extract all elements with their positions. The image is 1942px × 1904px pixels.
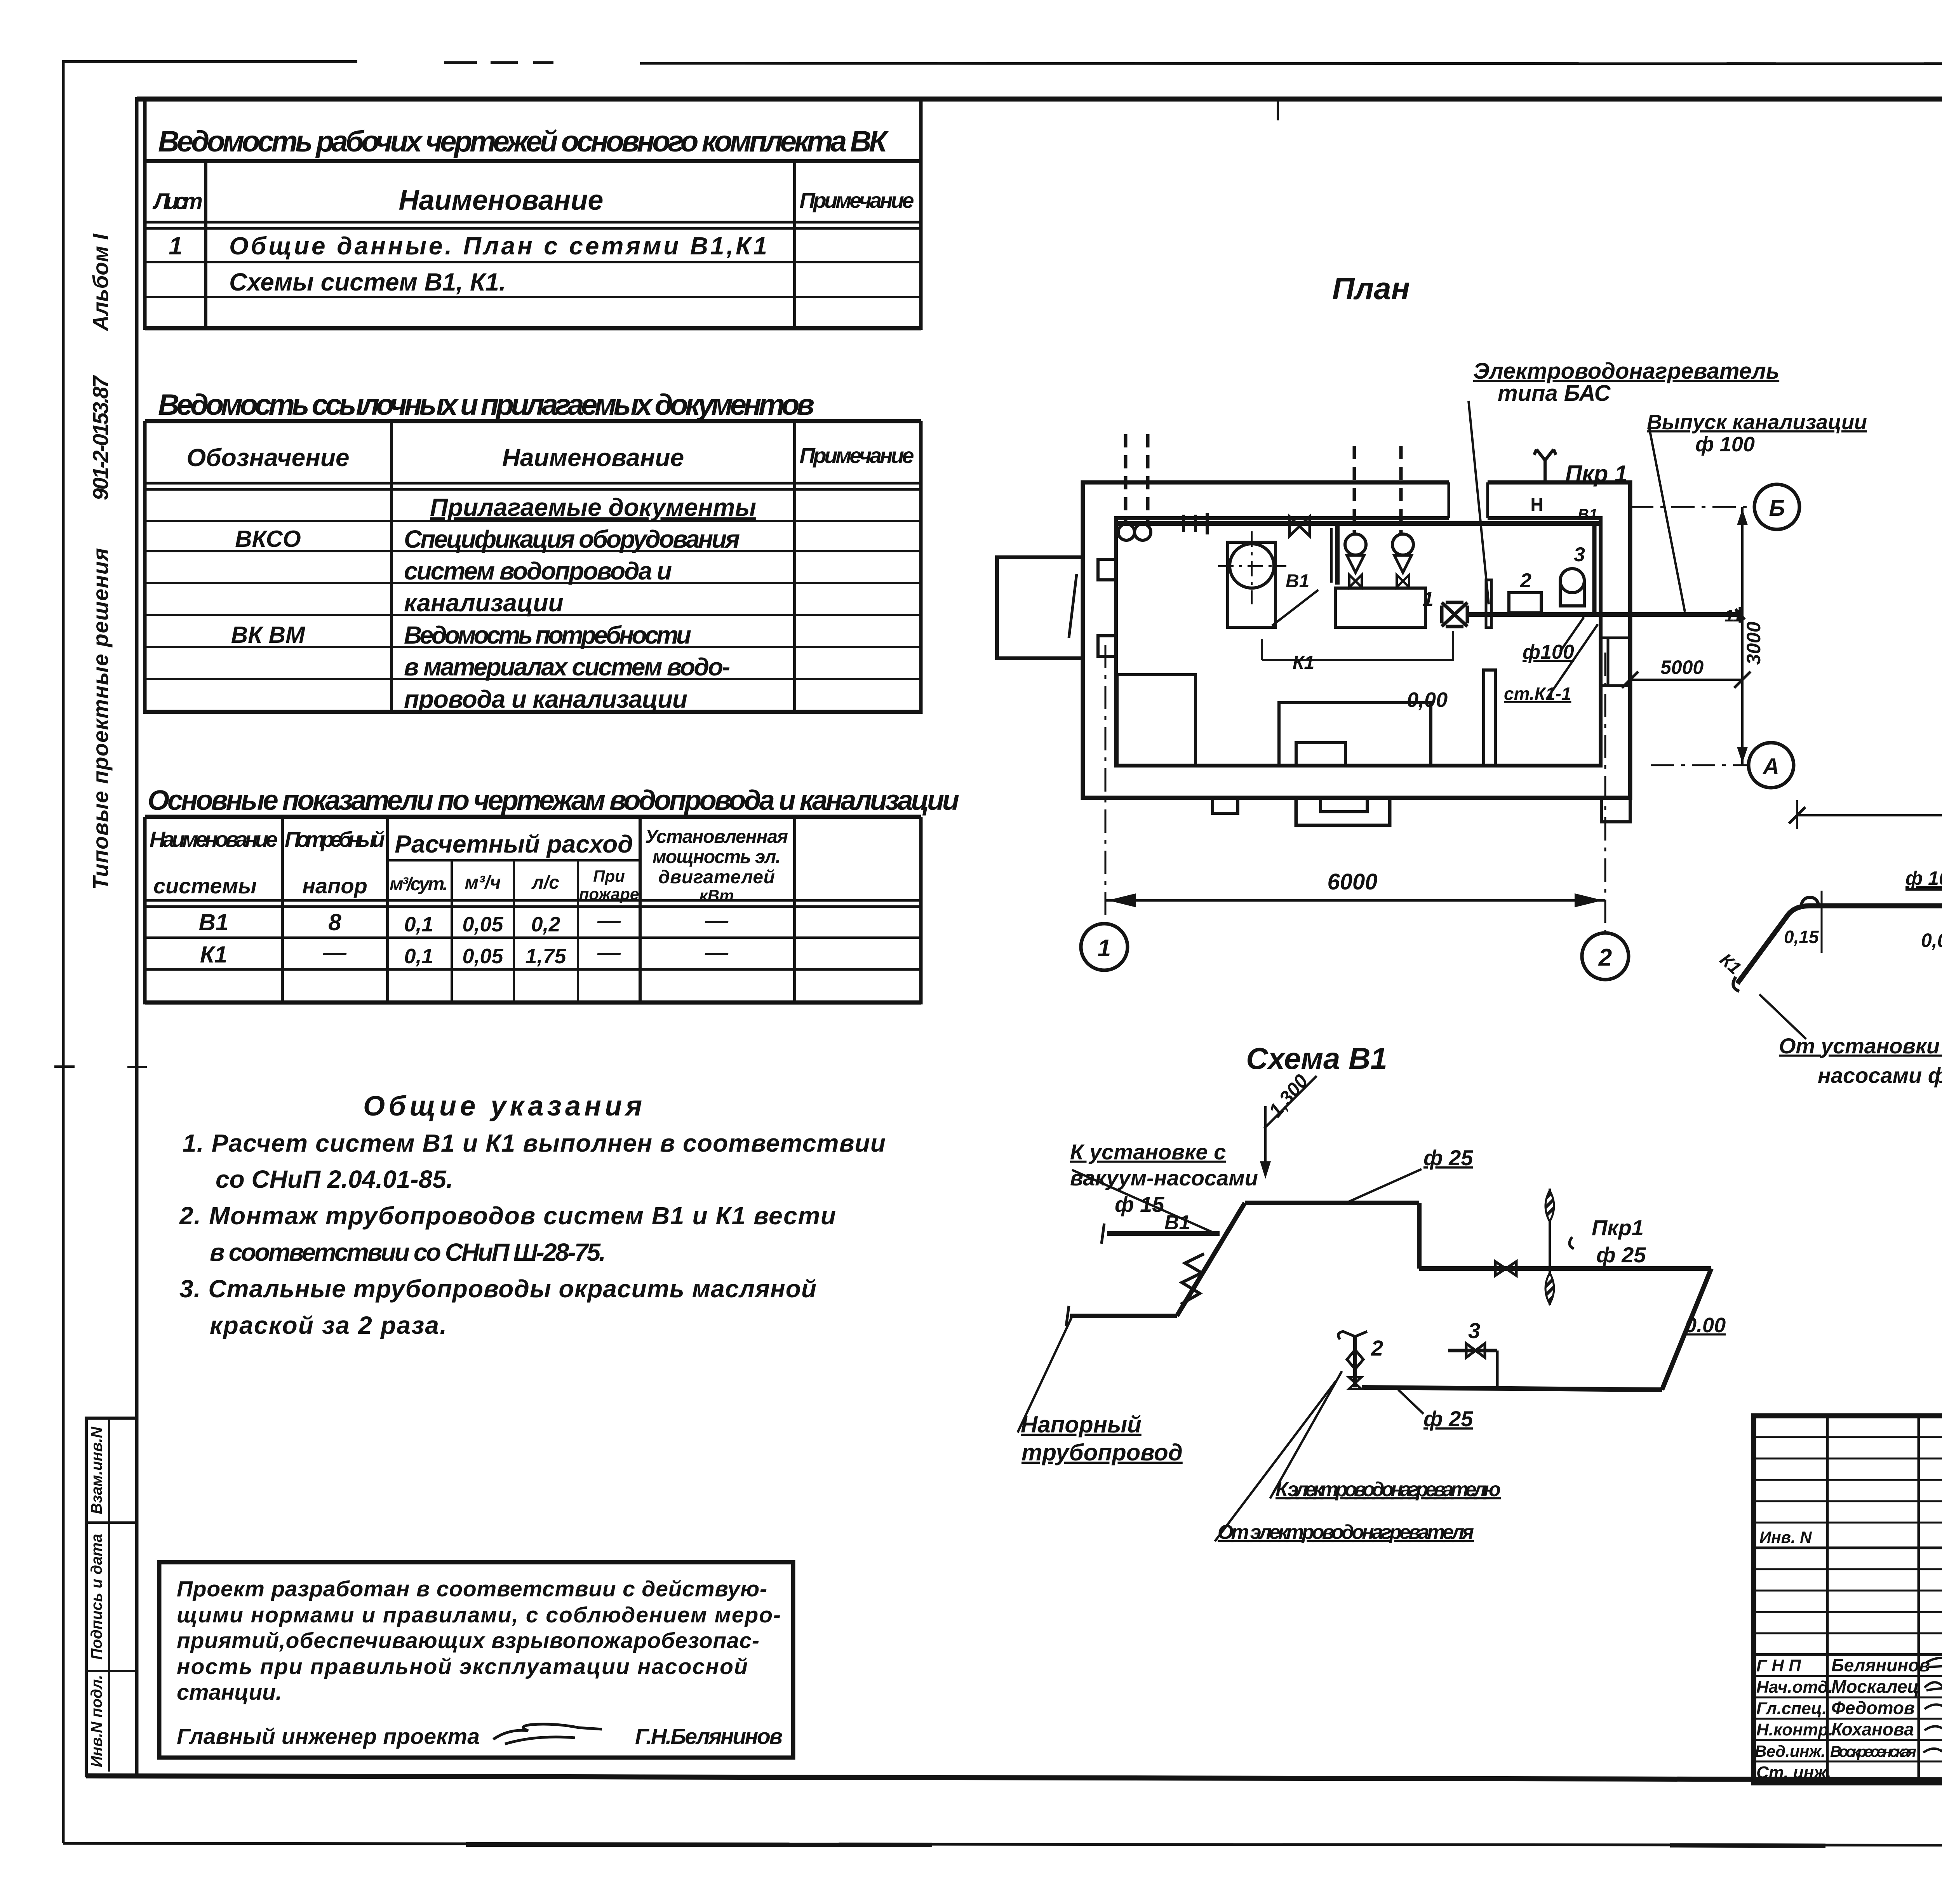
- svg-text:ф 100: ф 100: [1695, 433, 1755, 456]
- svg-text:вакуум-насосами: вакуум-насосами: [1070, 1166, 1258, 1190]
- svg-text:Гл.спец.: Гл.спец.: [1756, 1699, 1827, 1718]
- svg-text:В1: В1: [199, 909, 229, 935]
- svg-text:Ст. инж.: Ст. инж.: [1756, 1763, 1831, 1782]
- svg-text:ф 25: ф 25: [1596, 1243, 1646, 1267]
- svg-text:А: А: [1762, 754, 1779, 779]
- svg-text:типа БАС: типа БАС: [1498, 381, 1611, 406]
- svg-text:0,1: 0,1: [404, 913, 433, 936]
- svg-text:ность при правильной эксплу: ность при правильной эксплуатации насосн…: [177, 1654, 748, 1679]
- svg-text:Потребный: Потребный: [285, 827, 385, 851]
- svg-text:Наименование: Наименование: [399, 185, 604, 216]
- svg-text:5000: 5000: [1660, 656, 1704, 678]
- svg-text:ф 25: ф 25: [1423, 1145, 1473, 1170]
- svg-text:щими нормами и правилами, с: щими нормами и правилами, с соблюдением …: [177, 1603, 781, 1627]
- svg-text:8: 8: [328, 909, 341, 935]
- svg-text:провода и канализации: провода и канализации: [404, 685, 687, 713]
- svg-text:систем водопровода и: систем водопровода и: [404, 557, 672, 585]
- svg-text:ф 25: ф 25: [1423, 1406, 1473, 1431]
- svg-text:Схемы систем В1, К1.: Схемы систем В1, К1.: [229, 268, 506, 296]
- svg-text:Б: Б: [1769, 496, 1785, 521]
- svg-text:Напорный: Напорный: [1021, 1411, 1142, 1438]
- svg-text:Белянинов: Белянинов: [1831, 1655, 1930, 1675]
- svg-text:м³/сут.: м³/сут.: [390, 874, 448, 895]
- svg-text:Инв. N: Инв. N: [1759, 1528, 1812, 1546]
- svg-text:системы: системы: [153, 874, 257, 898]
- svg-text:1: 1: [1098, 935, 1111, 962]
- svg-text:Г.Н.Белянинов: Г.Н.Белянинов: [635, 1724, 783, 1749]
- svg-text:—: —: [705, 939, 729, 965]
- svg-text:3000: 3000: [1743, 621, 1765, 665]
- svg-text:К1: К1: [200, 942, 227, 968]
- svg-text:11: 11: [1724, 606, 1742, 625]
- svg-text:в материалах систем водо-: в материалах систем водо-: [404, 653, 730, 681]
- svg-text:0,00: 0,00: [1407, 688, 1448, 712]
- svg-text:1. Расчет систем В1 и К1: 1. Расчет систем В1 и К1 выполнен в соот…: [183, 1129, 886, 1157]
- svg-text:Наименование: Наименование: [150, 827, 278, 851]
- svg-text:Ведомость потребности: Ведомость потребности: [404, 621, 691, 649]
- svg-text:ф 100: ф 100: [1905, 867, 1942, 889]
- svg-text:в соответствии со СНиП Ш-28-: в соответствии со СНиП Ш-28-75.: [210, 1238, 606, 1266]
- svg-text:Инв.N подл.: Инв.N подл.: [88, 1675, 105, 1767]
- svg-text:—: —: [323, 939, 347, 965]
- svg-text:0,02: 0,02: [1921, 929, 1942, 951]
- svg-text:Примечание: Примечание: [800, 443, 914, 468]
- svg-text:Федотов: Федотов: [1831, 1698, 1915, 1718]
- svg-text:0,2: 0,2: [531, 913, 560, 936]
- svg-text:станции.: станции.: [177, 1680, 282, 1705]
- svg-text:—: —: [597, 939, 621, 965]
- svg-text:Общие данные. План с сетями: Общие данные. План с сетями В1,К1: [229, 232, 767, 260]
- svg-text:Н.контр.: Н.контр.: [1756, 1720, 1833, 1739]
- svg-text:2: 2: [1598, 944, 1612, 971]
- svg-text:0,05: 0,05: [462, 913, 503, 936]
- svg-text:0.00: 0.00: [1685, 1314, 1726, 1337]
- svg-text:Коханова: Коханова: [1831, 1719, 1914, 1739]
- svg-text:К электроводонагревателю: К электроводонагревателю: [1276, 1478, 1501, 1501]
- svg-text:Ведомость рабочих чертежей осн: Ведомость рабочих чертежей основного ком…: [158, 125, 889, 158]
- svg-text:2: 2: [1371, 1336, 1383, 1360]
- svg-text:Нач.отд.: Нач.отд.: [1756, 1678, 1833, 1697]
- svg-text:приятий,обеспечивающих взрыво: приятий,обеспечивающих взрывопожаробезоп…: [177, 1628, 759, 1653]
- svg-text:напор: напор: [302, 874, 367, 898]
- svg-text:Выпуск канализации: Выпуск канализации: [1647, 411, 1867, 434]
- svg-text:со СНиП 2.04.01-85.: со СНиП 2.04.01-85.: [216, 1165, 453, 1193]
- svg-text:К1: К1: [1293, 653, 1314, 673]
- svg-text:6000: 6000: [1327, 869, 1377, 895]
- svg-text:ф100: ф100: [1523, 641, 1574, 663]
- svg-text:Взам.инв.N: Взам.инв.N: [88, 1426, 105, 1514]
- svg-text:Лист: Лист: [152, 189, 203, 214]
- svg-text:0,05: 0,05: [462, 945, 503, 968]
- svg-text:Ведомость ссылочных и прилага: Ведомость ссылочных и прилагаемых докуме…: [158, 388, 814, 421]
- svg-text:пожаре: пожаре: [579, 885, 639, 903]
- svg-text:Электроводонагреватель: Электроводонагреватель: [1473, 359, 1779, 384]
- svg-text:3: 3: [1574, 543, 1585, 566]
- svg-text:Расчетный расход: Расчетный расход: [395, 830, 633, 858]
- svg-text:К установке с: К установке с: [1070, 1140, 1226, 1164]
- svg-text:3: 3: [1468, 1318, 1480, 1343]
- svg-text:Вед.инж.: Вед.инж.: [1755, 1742, 1825, 1760]
- svg-text:Примечание: Примечание: [800, 188, 914, 212]
- svg-text:План: План: [1332, 271, 1410, 306]
- svg-text:1: 1: [1422, 588, 1434, 611]
- svg-text:2. Монтаж трубопроводов сис: 2. Монтаж трубопроводов систем В1 и К1 в…: [179, 1202, 836, 1230]
- svg-text:ВК ВМ: ВК ВМ: [231, 622, 306, 648]
- svg-text:Прилагаемые документы: Прилагаемые документы: [430, 493, 756, 521]
- svg-text:2: 2: [1520, 569, 1531, 592]
- svg-text:двигателей: двигателей: [658, 867, 775, 888]
- svg-text:Проект разработан в соответс: Проект разработан в соответствии с дейст…: [177, 1577, 767, 1601]
- svg-text:краской за 2 раза.: краской за 2 раза.: [210, 1311, 447, 1339]
- svg-text:ст.К1-1: ст.К1-1: [1504, 684, 1571, 704]
- svg-text:Главный инженер проекта: Главный инженер проекта: [177, 1724, 480, 1749]
- svg-text:От установки с вакуум-: От установки с вакуум-: [1779, 1034, 1942, 1058]
- svg-text:Типовые проектные решения: Типовые проектные решения: [88, 548, 113, 890]
- svg-text:ф 15: ф 15: [1115, 1192, 1164, 1217]
- svg-text:канализации: канализации: [404, 589, 564, 617]
- svg-text:кВт: кВт: [700, 886, 734, 905]
- svg-text:Подпись и дата: Подпись и дата: [88, 1534, 105, 1660]
- svg-text:Установленная: Установленная: [645, 827, 788, 847]
- svg-text:насосами ф 15: насосами ф 15: [1818, 1063, 1942, 1088]
- svg-text:В1: В1: [1164, 1211, 1190, 1234]
- svg-text:—: —: [705, 907, 729, 933]
- svg-text:ВКСО: ВКСО: [235, 526, 301, 552]
- svg-text:Москалец: Москалец: [1831, 1676, 1919, 1697]
- svg-text:От электроводонагревателя: От электроводонагревателя: [1218, 1521, 1474, 1544]
- svg-text:3. Стальные трубопроводы ок: 3. Стальные трубопроводы окрасить маслян…: [179, 1275, 816, 1303]
- svg-text:Наименование: Наименование: [502, 444, 684, 472]
- svg-text:м³/ч: м³/ч: [465, 872, 501, 893]
- svg-text:Спецификация оборудования: Спецификация оборудования: [404, 525, 740, 553]
- svg-text:В1: В1: [1578, 506, 1597, 523]
- svg-text:К1: К1: [1716, 949, 1745, 978]
- svg-text:Общие указания: Общие указания: [363, 1091, 642, 1122]
- svg-text:Основные показатели по черте: Основные показатели по чертежам водопров…: [148, 785, 959, 816]
- svg-text:0,1: 0,1: [404, 945, 433, 968]
- svg-text:мощность эл.: мощность эл.: [653, 847, 781, 867]
- svg-text:Пкр 1: Пкр 1: [1565, 461, 1627, 487]
- svg-text:Обозначение: Обозначение: [186, 444, 349, 472]
- svg-text:901-2-0153.87: 901-2-0153.87: [88, 375, 113, 500]
- svg-text:1,300: 1,300: [1265, 1070, 1312, 1121]
- svg-text:Г Н П: Г Н П: [1756, 1656, 1801, 1675]
- svg-text:В1: В1: [1286, 571, 1309, 592]
- svg-text:При: При: [593, 867, 625, 885]
- svg-text:трубопровод: трубопровод: [1021, 1439, 1183, 1465]
- svg-text:Пкр1: Пкр1: [1592, 1215, 1644, 1240]
- svg-text:Схема В1: Схема В1: [1246, 1041, 1387, 1076]
- svg-text:Воскресенская: Воскресенская: [1830, 1743, 1916, 1760]
- svg-text:1,75: 1,75: [525, 945, 566, 968]
- svg-text:1: 1: [169, 232, 183, 260]
- svg-text:л/с: л/с: [531, 872, 559, 893]
- svg-text:—: —: [597, 907, 621, 933]
- svg-text:Альбом I: Альбом I: [88, 233, 113, 332]
- svg-text:0,15: 0,15: [1784, 927, 1819, 947]
